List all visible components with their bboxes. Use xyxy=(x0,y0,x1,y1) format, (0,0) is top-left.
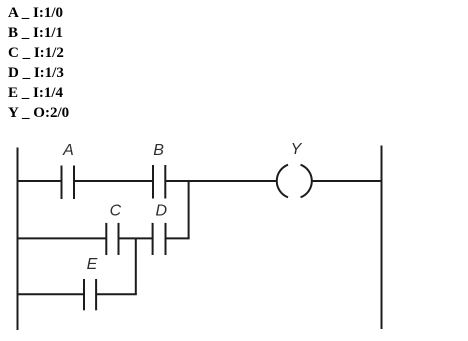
wire contact D to branch vertical xyxy=(166,237,190,239)
left power rail xyxy=(17,148,19,331)
contact C xyxy=(105,223,107,255)
svg-text:A: A xyxy=(62,142,74,159)
wire contact A to contact B xyxy=(75,180,153,182)
svg-text:E: E xyxy=(87,256,98,273)
svg-text:Y: Y xyxy=(291,141,303,158)
wire branch vertical rung2-rung3 xyxy=(135,238,137,294)
svg-text:B: B xyxy=(153,142,164,159)
wire contact B to coil Y xyxy=(166,180,277,182)
contact A xyxy=(61,166,63,200)
svg-text:D: D xyxy=(156,203,168,220)
coil Y xyxy=(277,165,288,198)
wire contact E to branch vertical xyxy=(97,293,137,295)
contact B xyxy=(152,165,154,199)
right power rail xyxy=(381,146,383,330)
svg-text:C: C xyxy=(110,203,122,220)
wire rung3 left-rail to contact E xyxy=(18,293,84,295)
address list text block xyxy=(8,3,69,123)
wire rung2 left-rail to contact C xyxy=(18,237,106,239)
contact D xyxy=(152,223,154,255)
wire branch vertical rung1-rung2 xyxy=(188,181,190,238)
wire contact C to contact D xyxy=(119,237,152,239)
contact E xyxy=(83,279,85,310)
wire coil Y to right rail xyxy=(312,180,382,182)
wire rung1 left-rail to contact A xyxy=(18,180,62,182)
